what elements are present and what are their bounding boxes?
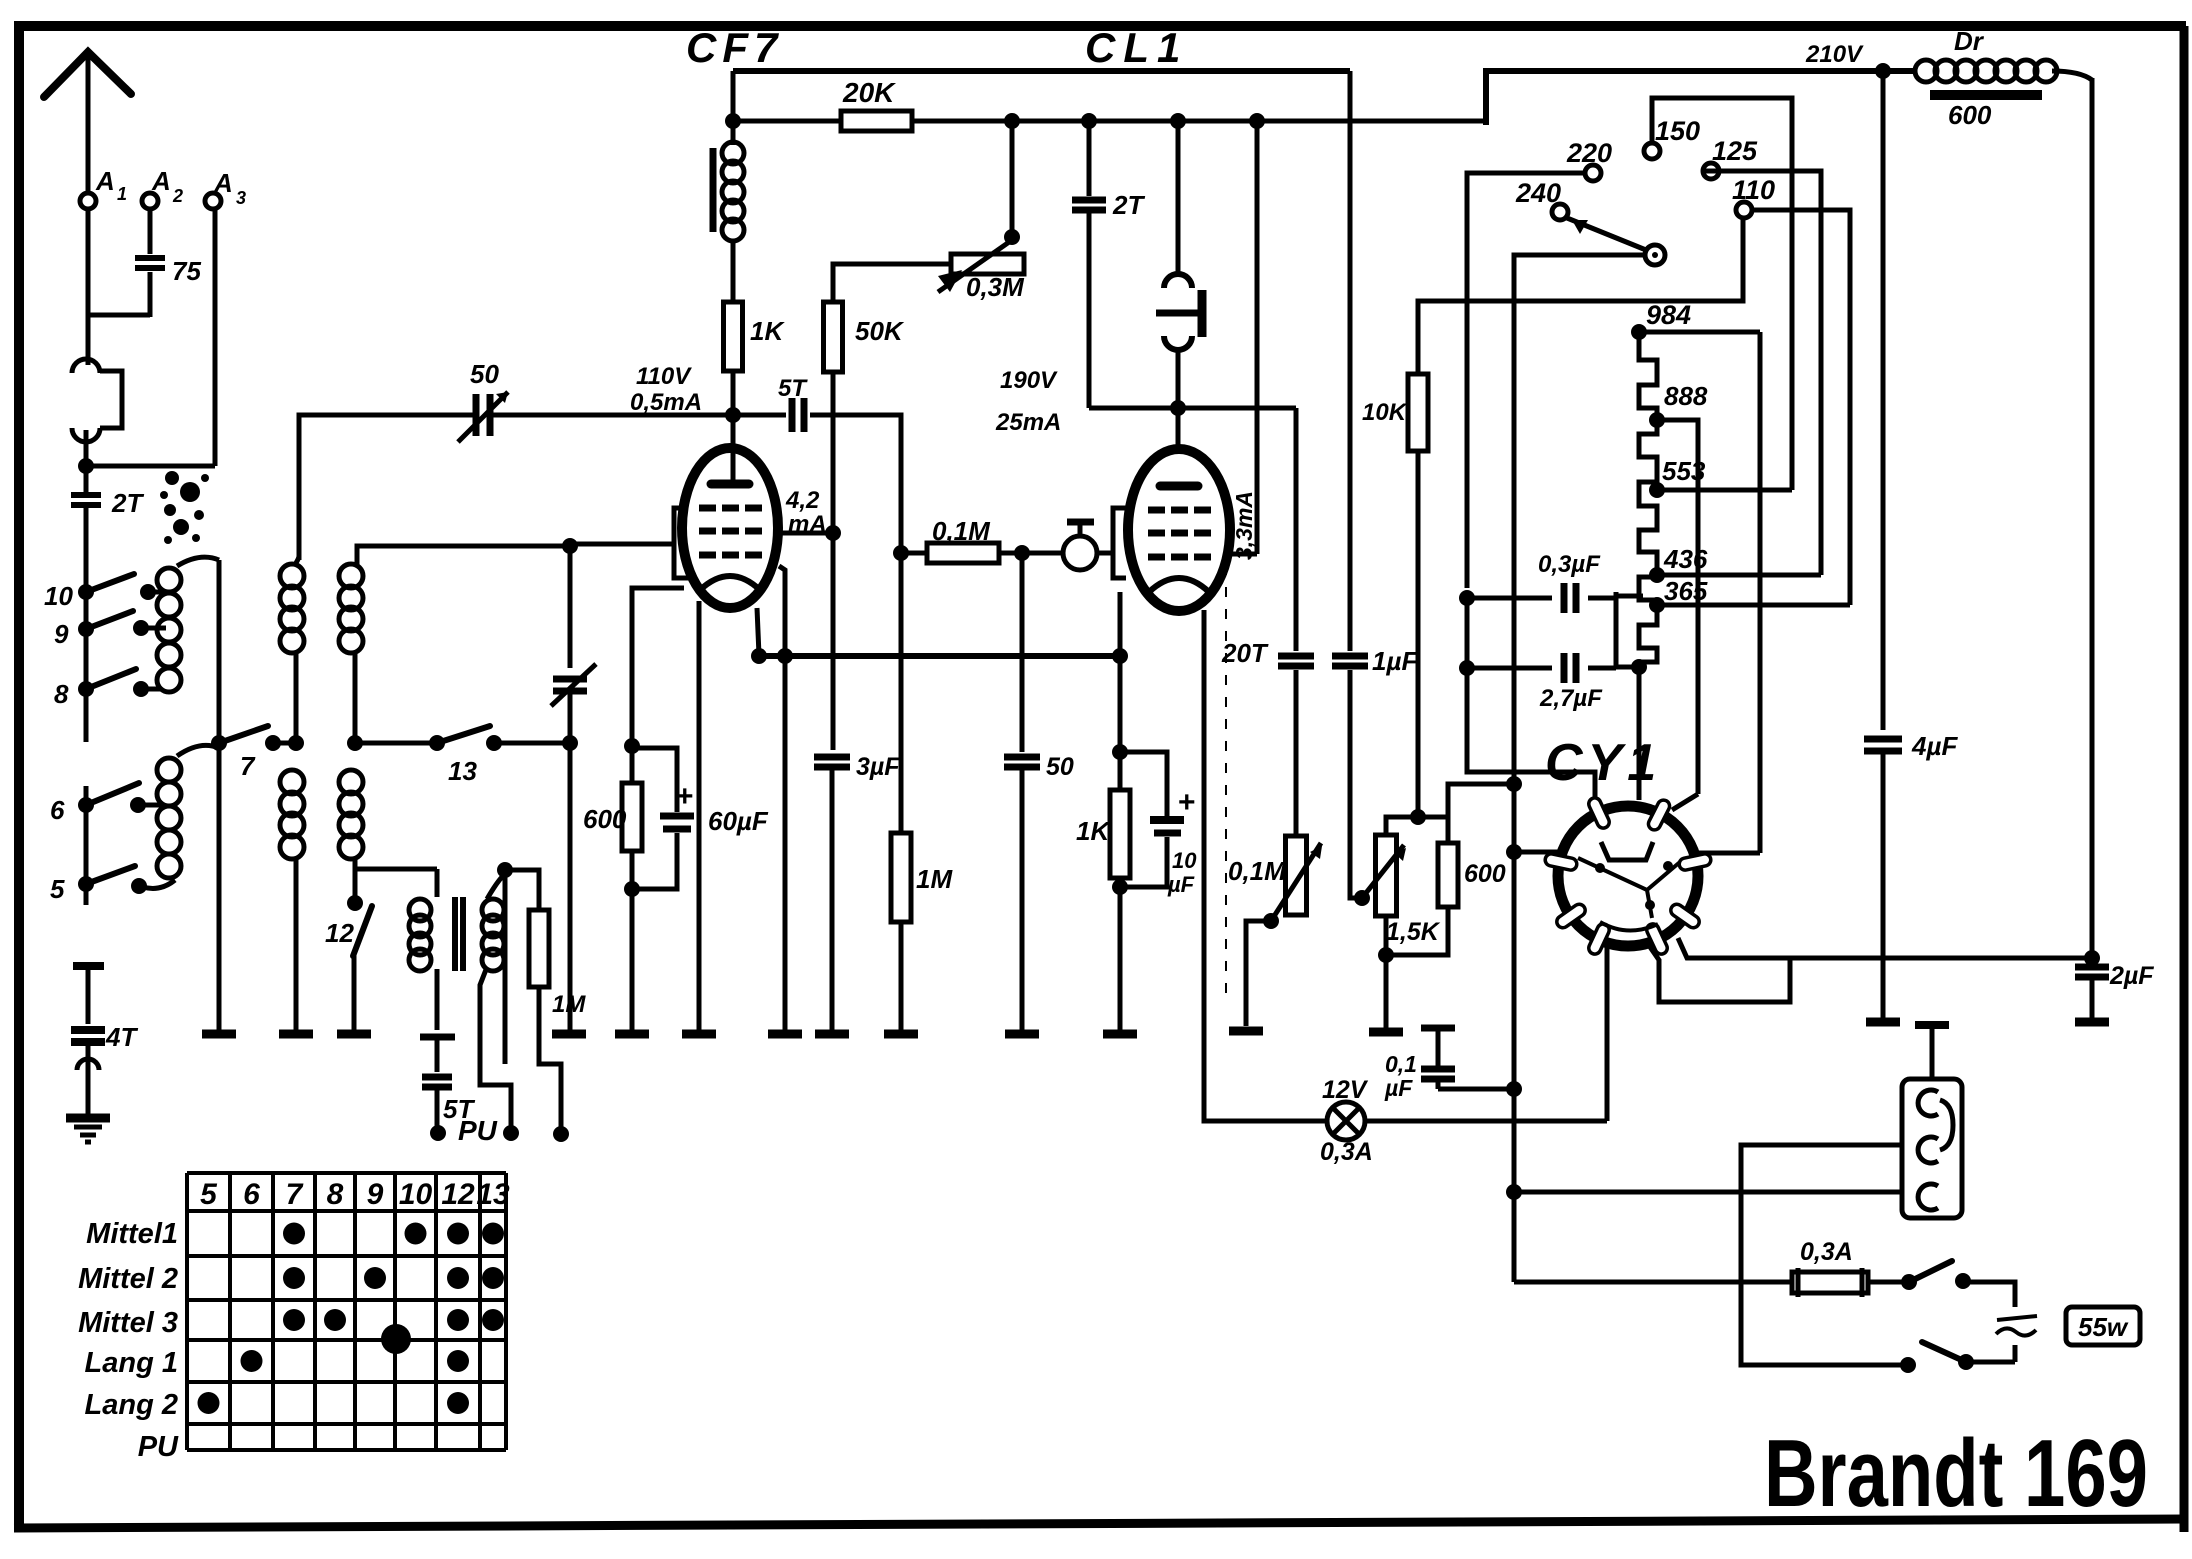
wire 150 branch: [1652, 98, 1792, 490]
wire 0,3M wiper: [1010, 121, 1015, 237]
svg-text:1M: 1M: [916, 864, 953, 894]
wire 1M PU bottom: [539, 987, 561, 1130]
fuse 0,3A: [1792, 1272, 1868, 1293]
svg-text:0,1M: 0,1M: [1228, 856, 1287, 886]
node 10uF top: [1112, 744, 1128, 760]
wire 1,5K to ground: [1384, 955, 1389, 1028]
ground 12: [337, 1030, 371, 1039]
terminal 220: [1585, 165, 1601, 181]
wire CL1 anode to lamp: [1204, 610, 1327, 1121]
capacitor 5T: [420, 1034, 455, 1041]
switch arm 8: [86, 669, 136, 689]
wire A2 to A1 junction: [88, 313, 150, 318]
svg-text:Lang 1: Lang 1: [85, 1347, 178, 1379]
ink blot: [160, 471, 209, 544]
anode wire CF7: [778, 531, 833, 536]
grid bracket CF7: [674, 508, 688, 578]
cathode wire CF7 mid to ground: [697, 601, 702, 1030]
svg-text:1K: 1K: [1076, 816, 1111, 846]
wire comb top edge: [1639, 330, 1760, 335]
svg-text:50K: 50K: [855, 316, 905, 346]
wire fuse line: [1514, 1280, 1792, 1285]
CY1 pin: [1678, 853, 1712, 871]
wire 220 branch: [1467, 173, 1585, 588]
coil L2 lower: [280, 770, 304, 794]
wire 1K CL1 bottom: [1118, 878, 1123, 1030]
capacitor 20T: [1294, 408, 1299, 651]
svg-text:µF: µF: [1167, 872, 1195, 897]
CY1 pin: [1587, 922, 1611, 956]
dial lamp 12V 0,3A: [1327, 1102, 1365, 1140]
wire to 13: [355, 741, 437, 746]
svg-text:PU: PU: [458, 1115, 498, 1146]
wire AC to lower switch: [2013, 1345, 2018, 1362]
mains socket: [1902, 1079, 1962, 1218]
wire trimmer to ground: [568, 743, 573, 1030]
wire 0,1uF to line: [1438, 1087, 1514, 1092]
resistor 1K CL1: [1110, 790, 1130, 878]
svg-text:888: 888: [1664, 381, 1708, 411]
svg-text:553: 553: [1662, 456, 1706, 486]
svg-text:10K: 10K: [1362, 399, 1408, 426]
switch 13: [429, 735, 445, 751]
plug connector on A1: [72, 359, 100, 373]
svg-text:0,3M: 0,3M: [966, 272, 1025, 302]
mains switch lower: [1966, 1360, 2015, 1365]
svg-text:0,3µF: 0,3µF: [1538, 551, 1601, 578]
resistor dropper comb: [1639, 332, 1657, 667]
svg-text:+: +: [676, 780, 694, 813]
wire A1 to node: [84, 430, 89, 470]
svg-text:2,7µF: 2,7µF: [1539, 685, 1603, 712]
svg-text:190V: 190V: [1000, 367, 1058, 394]
svg-text:55w: 55w: [2078, 1312, 2129, 1342]
svg-text:2: 2: [172, 186, 183, 206]
node 20K line: [725, 113, 741, 129]
svg-text:3: 3: [236, 188, 246, 208]
svg-text:5T: 5T: [778, 375, 808, 402]
CY1 internal wires: [1578, 858, 1680, 931]
wire to PU transformer: [435, 869, 440, 897]
node 13 left: [347, 735, 363, 751]
ground CF7 cathode: [682, 1030, 716, 1039]
capacitor 60uF: [660, 813, 694, 820]
node 2,7uF left: [1459, 660, 1475, 676]
capacitor 3uF: [814, 754, 850, 761]
PU transformer secondary: [482, 899, 504, 921]
node comb top: [1631, 324, 1647, 340]
IF transformer core: [710, 148, 717, 232]
ground 600: [615, 1030, 649, 1039]
node 60uF bottom: [624, 881, 640, 897]
CY1 pin: [1544, 853, 1578, 871]
potentiometer 0,1M tone: [1286, 836, 1307, 915]
wire CF7 bottom-right to bus: [757, 608, 759, 656]
wire fuse to switch: [1868, 1280, 1909, 1285]
svg-text:4T: 4T: [105, 1022, 138, 1052]
wire CY1 bottom-right pin heater: [1678, 938, 2092, 958]
svg-text:50: 50: [1046, 753, 1074, 781]
grid bracket CL1: [1113, 508, 1126, 578]
wire L3 to switch12: [353, 869, 358, 903]
wire grid node to tube: [731, 415, 736, 481]
wire switch to AC: [1963, 1282, 2015, 1307]
dashed crease: [1225, 565, 1227, 1005]
node CY1 left: [1506, 844, 1522, 860]
wire L3 mid: [353, 652, 358, 743]
tap 553: [1649, 482, 1665, 498]
wire CF7 top corner: [731, 71, 736, 145]
capacitor 2T antenna: [84, 466, 89, 492]
CY1 pin: [1668, 902, 1701, 930]
svg-text:13: 13: [476, 1178, 510, 1211]
wire secondary bottom: [480, 967, 511, 1128]
coil L1 upper: [157, 568, 181, 592]
svg-text:50: 50: [470, 359, 499, 389]
resistor 1K CF7: [724, 302, 743, 371]
svg-text:8: 8: [327, 1178, 344, 1211]
svg-text:6: 6: [243, 1178, 260, 1211]
svg-text:3,3mA: 3,3mA: [1231, 491, 1257, 560]
svg-text:600: 600: [1948, 100, 1992, 130]
terminal PU left: [430, 1125, 446, 1141]
wire coil bus x219: [217, 560, 222, 1030]
terminal A2: [142, 193, 158, 209]
svg-text:1K: 1K: [750, 316, 785, 346]
resistor 1M PU: [529, 910, 549, 987]
wire wiper return: [1514, 255, 1645, 1282]
switch arm 10: [86, 574, 134, 592]
terminal PU right: [553, 1126, 569, 1142]
node trimmer-13: [562, 735, 578, 751]
wire 2T down: [1087, 212, 1092, 408]
electrolytic 60uF branch: [632, 748, 677, 812]
wire to 1M PU resistor: [505, 870, 539, 910]
wire 20T to 0,1M pot: [1294, 670, 1299, 836]
svg-text:0,1M: 0,1M: [932, 516, 991, 546]
svg-text:5: 5: [50, 874, 65, 904]
svg-text:600: 600: [583, 804, 627, 834]
svg-text:10: 10: [399, 1178, 433, 1211]
coil L2 upper: [280, 564, 304, 588]
svg-text:220: 220: [1566, 138, 1612, 168]
ground 3uF: [815, 1030, 849, 1039]
node switch7: [211, 735, 227, 751]
node 0,1uF: [1506, 1081, 1522, 1097]
tube CL1: [1128, 449, 1230, 611]
cathode wire CL1: [1118, 592, 1123, 656]
resistor 10K: [1416, 451, 1421, 817]
svg-text:Mittel 3: Mittel 3: [78, 1307, 178, 1339]
CY1 pin: [1554, 902, 1587, 930]
wire volume line: [999, 551, 1063, 556]
node 210V: [1875, 63, 1891, 79]
anode wire CL1: [1231, 552, 1257, 557]
ground 1K CL1: [1103, 1030, 1137, 1039]
svg-text:12: 12: [441, 1178, 475, 1211]
wire primary to 5T cap: [435, 969, 440, 1030]
svg-text:436: 436: [1663, 544, 1708, 574]
svg-text:0,5mA: 0,5mA: [630, 389, 702, 416]
resistor 20K: [841, 111, 912, 131]
wire CY1 top-right pin: [1672, 794, 1698, 810]
socket pin top: [1918, 1090, 1938, 1116]
svg-text:4,2: 4,2: [785, 487, 820, 514]
wire top B+ line: [733, 68, 1350, 74]
svg-text:Lang 2: Lang 2: [85, 1389, 178, 1421]
volume control: [1063, 536, 1097, 570]
svg-text:Mittel 2: Mittel 2: [78, 1263, 178, 1295]
wire choke out: [2052, 71, 2092, 80]
earth ground symbol: [66, 1114, 110, 1123]
svg-text:0,3A: 0,3A: [1800, 1238, 1853, 1266]
wire caps right: [1588, 596, 1616, 601]
wire mains down: [1513, 1192, 1515, 1282]
wire 600 bias bottom: [1386, 907, 1448, 955]
wire L2 mid: [294, 652, 299, 743]
contact 9: [78, 621, 94, 637]
wire comb right edge: [1758, 332, 1763, 853]
wire volume to CL1 grid: [1097, 551, 1114, 556]
wire caps to CY1 pin: [1467, 668, 1595, 812]
grid cap clip CL1: [1164, 274, 1192, 288]
ground 1M: [884, 1030, 918, 1039]
coil L3 lower: [339, 770, 363, 794]
CY1 pin: [1645, 922, 1669, 956]
ground L2: [279, 1030, 313, 1039]
selector wiper: [1645, 245, 1665, 265]
wire clip line top: [1176, 121, 1181, 277]
CY1 pin: [1646, 798, 1671, 832]
svg-text:3µF: 3µF: [856, 753, 900, 781]
svg-text:Dr: Dr: [1954, 26, 1985, 56]
antenna: [44, 52, 131, 97]
terminal 240: [1552, 204, 1568, 220]
node bus right: [1112, 648, 1128, 664]
grid wire node: [562, 538, 578, 554]
potentiometer 0,3M: [951, 254, 1024, 274]
CY1 pin: [1587, 796, 1611, 830]
terminal PU mid: [503, 1125, 519, 1141]
svg-text:Brandt 169: Brandt 169: [1764, 1420, 2148, 1527]
svg-text:+: +: [1178, 786, 1196, 819]
resistor 600 cathode: [630, 746, 635, 783]
wire comb to CY1 key: [1637, 667, 1642, 800]
svg-text:6: 6: [50, 795, 65, 825]
bracket 10K to pots: [1386, 817, 1448, 843]
wire 0,1M right down: [1020, 553, 1025, 752]
wire CY1 bottom-left pin: [1605, 944, 1610, 1121]
svg-text:60µF: 60µF: [708, 806, 769, 836]
wire 20K line right: [912, 119, 1486, 124]
ground screen: [768, 1030, 802, 1039]
resistor 600 bias: [1438, 843, 1458, 907]
mains switch upper: [1901, 1274, 1917, 1290]
svg-text:A: A: [95, 166, 115, 196]
capacitor 4T: [73, 962, 104, 970]
wiper 0,1M wire: [1263, 913, 1279, 929]
trimmer capacitor: [553, 676, 587, 683]
svg-text:240: 240: [1515, 178, 1561, 208]
ground coil bus: [202, 1030, 236, 1039]
node mains mid: [1506, 1184, 1522, 1200]
svg-text:2µF: 2µF: [2109, 962, 2154, 990]
wire 365 link: [1616, 594, 1643, 599]
wire 12 to ground: [352, 952, 357, 1030]
coil L1 lower: [157, 758, 181, 782]
CY1 keyway: [1601, 842, 1653, 860]
wire PU top branch down: [503, 870, 508, 1064]
ground 4uF: [1866, 1018, 1900, 1027]
wire secondary top: [487, 874, 505, 899]
svg-text:13: 13: [448, 756, 477, 786]
svg-text:75: 75: [172, 256, 201, 286]
svg-text:0,1: 0,1: [1385, 1051, 1417, 1077]
capacitor 2T screen: [1087, 121, 1092, 196]
svg-text:10: 10: [44, 581, 73, 611]
svg-text:20K: 20K: [842, 77, 896, 108]
wire to socket bottom pin: [1514, 1190, 1902, 1195]
wire A1 down: [86, 208, 91, 365]
svg-text:4µF: 4µF: [1911, 731, 1958, 761]
svg-text:A: A: [151, 166, 171, 196]
node 0,3uF left: [1459, 590, 1475, 606]
resistor 50K: [824, 302, 843, 372]
node clip line: [1170, 400, 1186, 416]
svg-text:600: 600: [1464, 860, 1506, 888]
svg-text:CL1: CL1: [1085, 24, 1188, 71]
capacitor 5T coupling: [733, 413, 786, 418]
wire 220 to 2,7uF: [1465, 598, 1470, 668]
svg-text:µF: µF: [1384, 1075, 1413, 1101]
socket pin bottom: [1918, 1184, 1938, 1210]
ground 2uF: [2075, 1018, 2109, 1027]
contact 5: [78, 876, 94, 892]
wire L3 bottom corner: [355, 858, 437, 869]
wire 20K line: [733, 119, 841, 124]
svg-text:A: A: [213, 168, 233, 198]
node CF7 grid top: [725, 407, 741, 423]
svg-text:Mittel1: Mittel1: [86, 1218, 178, 1250]
wire 5T to CL1 grid line: [810, 415, 901, 548]
tube CF7: [682, 448, 778, 608]
node 600 top: [624, 738, 640, 754]
cathode wire CF7 left: [632, 588, 684, 746]
svg-text:150: 150: [1655, 116, 1700, 146]
svg-text:984: 984: [1646, 300, 1691, 330]
terminal 150: [1644, 143, 1660, 159]
wire 50K down: [831, 372, 836, 750]
node 2uF: [2084, 950, 2100, 966]
wire grid to CF7: [570, 542, 672, 547]
wire 50-line left corner: [299, 415, 474, 560]
contact 9 right: [133, 620, 149, 636]
svg-text:110: 110: [1732, 175, 1775, 205]
border frame right: [2180, 26, 2189, 1532]
svg-text:10: 10: [1172, 848, 1197, 873]
svg-text:25mA: 25mA: [995, 409, 1061, 436]
svg-text:365: 365: [1664, 576, 1708, 606]
potentiometer 1,5K: [1376, 835, 1397, 916]
capacitor 50 grid: [1004, 754, 1040, 761]
svg-text:7: 7: [286, 1178, 304, 1211]
svg-text:CY1: CY1: [1545, 734, 1661, 792]
rectifier socket CY1: [1558, 806, 1698, 946]
capacitor 0,1uF: [1421, 1025, 1455, 1032]
wire 3uF to ground: [830, 770, 835, 1030]
contact 8 right: [133, 681, 149, 697]
band switch table: [185, 1173, 189, 1450]
svg-text:20T: 20T: [1221, 638, 1269, 668]
wire 4uF line: [1881, 71, 1886, 730]
resistor 0,1M coupling: [901, 551, 927, 556]
wire 190V node: [1089, 406, 1296, 411]
wire 10K top: [1418, 219, 1743, 374]
contact 10: [78, 584, 94, 600]
table big dot: [381, 1324, 411, 1354]
border frame bottom: [14, 1519, 2184, 1528]
wire grid-line corner x357: [357, 546, 570, 565]
svg-text:12V: 12V: [1322, 1076, 1369, 1104]
wire 50 to CF7: [492, 413, 733, 418]
capacitor 4uF: [1864, 736, 1902, 743]
switch 7: [265, 735, 281, 751]
svg-text:9: 9: [54, 619, 69, 649]
wire contacts 6-5: [84, 786, 89, 905]
ground 1,5K: [1369, 1028, 1403, 1037]
electrolytic 10uF: [1120, 752, 1167, 816]
wire 600 bias top: [1448, 784, 1514, 843]
node anode top: [1249, 113, 1265, 129]
svg-text:1,5K: 1,5K: [1386, 918, 1441, 946]
node 600 top junction: [1506, 776, 1522, 792]
wire CY1 left pin: [1514, 850, 1558, 855]
socket pin mid: [1918, 1137, 1938, 1163]
wire coil to 1K: [731, 240, 736, 302]
wire CL1 anode up: [1255, 121, 1260, 554]
contact 6 right: [130, 797, 146, 813]
node PU top: [497, 862, 513, 878]
PU transformer primary: [409, 899, 431, 921]
table dots: [283, 1223, 305, 1245]
wire 600 to ground: [630, 851, 635, 1030]
ground trimmer: [552, 1030, 586, 1039]
svg-text:110V: 110V: [636, 363, 692, 390]
terminal 110: [1736, 202, 1752, 218]
capacitor 0,3uF: [1467, 596, 1552, 601]
svg-text:5: 5: [200, 1178, 218, 1211]
svg-text:CF7: CF7: [686, 24, 783, 71]
switch arm 5: [86, 866, 135, 884]
socket top terminal: [1930, 1029, 1935, 1079]
tap 888: [1649, 412, 1665, 428]
IF transformer coil: [722, 142, 744, 164]
wire 0,1M down to 1M: [899, 553, 904, 833]
AC symbol: [1997, 1316, 2037, 1320]
wire to A3: [86, 464, 215, 469]
wire B+ corner right: [1486, 71, 1915, 125]
node 7 right: [288, 735, 304, 751]
wire CY1 right pin: [1698, 851, 1760, 856]
wire 13 to trimmer line: [494, 741, 570, 746]
node 0,3M on 20K line: [1004, 113, 1020, 129]
node anode-50K: [825, 525, 841, 541]
capacitor 75: [148, 208, 153, 254]
wire 50K top corner: [833, 264, 951, 302]
terminal A3: [205, 193, 221, 209]
wire trimmer line: [568, 546, 573, 668]
wire socket mid to switch: [1741, 1145, 1908, 1365]
